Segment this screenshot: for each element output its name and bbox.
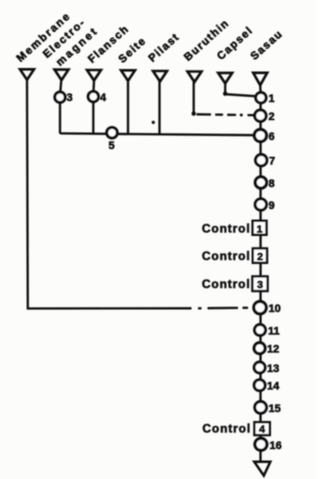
svg-text:16: 16 [270, 440, 282, 452]
node 6 circle [254, 129, 266, 141]
node 13 circle [254, 362, 265, 373]
svg-text:8: 8 [269, 178, 275, 190]
svg-text:7: 7 [269, 156, 275, 168]
control box 2 [253, 248, 267, 262]
svg-text:5: 5 [109, 140, 115, 152]
input triangle 7 [218, 73, 232, 84]
svg-text:3: 3 [257, 279, 263, 291]
svg-text:Control: Control [202, 421, 251, 435]
node 11 circle [255, 325, 266, 336]
node 12 circle [254, 343, 265, 354]
node 3 circle [55, 92, 65, 102]
svg-text:9: 9 [269, 200, 275, 212]
input triangle 4 [121, 70, 135, 81]
wire: node 3 down to bus [59, 102, 61, 133]
node 5 circle on bus [107, 127, 118, 138]
junction dot at triangle7 corner [223, 92, 227, 96]
wire: main chain vertical [259, 85, 262, 462]
node 15 circle [255, 402, 267, 414]
svg-text:3: 3 [67, 92, 73, 104]
control box 1 [253, 221, 267, 235]
input triangle 3 Flange [87, 70, 101, 81]
svg-text:13: 13 [267, 363, 279, 375]
node 1 circle [256, 93, 266, 103]
svg-text:12: 12 [267, 344, 279, 356]
svg-text:15: 15 [269, 403, 281, 415]
node 2 circle [255, 110, 266, 121]
wire: dashed tail into node 10 [198, 307, 202, 309]
node 4 circle [88, 91, 98, 101]
svg-text:Control: Control [202, 249, 251, 263]
svg-text:11: 11 [268, 326, 280, 338]
svg-text:4: 4 [259, 423, 265, 435]
junction dot at triangle6 corner [192, 111, 196, 115]
wire: membrane long left line down and across to node 10 [27, 80, 192, 309]
svg-text:1: 1 [257, 223, 263, 235]
svg-text:4: 4 [100, 92, 107, 104]
svg-text:Control: Control [202, 221, 251, 235]
stray dot near triangle5 line [152, 121, 155, 124]
svg-text:14: 14 [267, 381, 280, 393]
node 9 circle [255, 199, 266, 210]
wire: bus from below node3 to node 6 [60, 133, 255, 135]
node 8 circle [255, 177, 266, 188]
wire: triangle4 stem to bus [127, 81, 129, 135]
wire: dashed from triangle6 corner to node 2 [197, 113, 212, 115]
svg-text:6: 6 [269, 131, 275, 143]
wire: flange stem to node 4 [92, 80, 95, 91]
node 10 circle [254, 301, 266, 313]
input triangle 6 [188, 72, 202, 83]
svg-text:2: 2 [257, 251, 263, 263]
node 16 circle [255, 438, 267, 450]
svg-text:10: 10 [269, 303, 281, 315]
node 7 circle [256, 155, 267, 166]
control box 4 [254, 422, 269, 435]
wire: triangle6 stem down [193, 82, 195, 114]
wire: triangle5 stem to bus [158, 81, 160, 134]
input triangle 5 [153, 71, 167, 82]
svg-text:Control: Control [202, 277, 251, 291]
wire: node 4 down to bus [92, 102, 94, 134]
control box 3 [252, 276, 267, 291]
wire: triangle7 stem down [224, 83, 226, 93]
svg-text:1: 1 [269, 93, 275, 105]
svg-text:2: 2 [269, 111, 275, 123]
input triangle 2 Electro-magnet [55, 70, 69, 81]
wire: electromagnet stem to node 3 [60, 80, 61, 92]
input triangle 8 [253, 73, 267, 85]
output triangle bottom [254, 462, 270, 476]
input triangle 1 Membrane [20, 69, 34, 80]
wire: triangle7 corner to node 1 [227, 94, 256, 96]
node 14 circle [254, 380, 265, 391]
